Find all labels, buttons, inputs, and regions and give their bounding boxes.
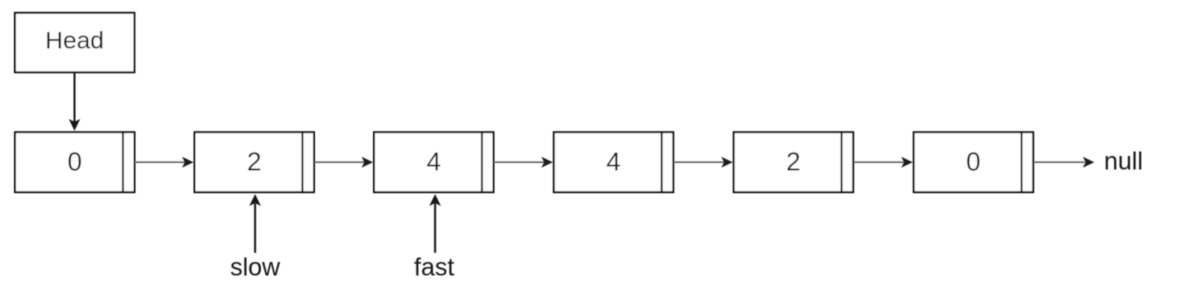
svg-text:4: 4 bbox=[426, 147, 440, 177]
svg-text:fast: fast bbox=[414, 253, 454, 281]
svg-text:Head: Head bbox=[45, 28, 104, 55]
svg-text:0: 0 bbox=[67, 147, 81, 177]
svg-text:0: 0 bbox=[966, 147, 980, 177]
svg-text:2: 2 bbox=[247, 147, 261, 177]
svg-text:null: null bbox=[1104, 148, 1143, 176]
svg-text:4: 4 bbox=[606, 147, 620, 177]
svg-text:2: 2 bbox=[786, 147, 800, 177]
svg-text:slow: slow bbox=[230, 253, 281, 281]
